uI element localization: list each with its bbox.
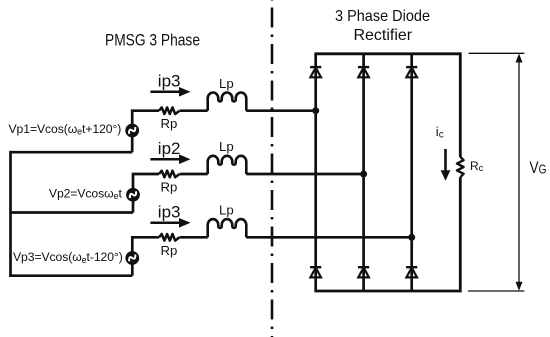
svg-text:Rp: Rp <box>161 243 178 258</box>
current arrow ip3 (phase 1) <box>150 91 181 94</box>
diode D4 (bottom leg 1) cathode bar <box>310 266 321 268</box>
VG measurement: top reference line <box>469 52 525 54</box>
wire phase3: inductor to rectifier leg 3 <box>246 236 412 239</box>
inductor Lp (phase 3) <box>208 219 247 237</box>
svg-text:Rectifier: Rectifier <box>353 27 412 44</box>
current arrow ip2 (phase 2) <box>150 158 181 161</box>
diode D5 (bottom leg 2) cathode bar <box>358 266 369 268</box>
load branch: bottom segment <box>459 177 462 292</box>
neutral wire: horizontal from Vp1 <box>11 151 133 154</box>
AC source Vp3 <box>125 251 139 265</box>
wire phase1: resistor to inductor <box>180 109 208 112</box>
node junction phase1/leg1 <box>312 107 319 114</box>
diode D3 (top leg 3) cathode bar <box>406 66 417 68</box>
inductor Lp (phase 2) <box>208 156 247 174</box>
AC source Vp1 <box>125 124 139 138</box>
wire phase3: resistor to inductor <box>180 236 208 239</box>
diode D2 (top leg 2) cathode bar <box>358 66 369 68</box>
svg-text:Rp: Rp <box>161 116 178 131</box>
wire phase2: resistor to inductor <box>180 173 208 176</box>
VG measurement: bottom reference line <box>468 290 524 292</box>
neutral wire: horizontal from Vp3 <box>11 274 133 277</box>
svg-text:PMSG 3 Phase: PMSG 3 Phase <box>105 32 200 50</box>
neutral wire: left vertical bus <box>9 151 12 277</box>
current arrow ic <box>444 149 447 171</box>
wire phase1: source top lead up and right to resistor <box>132 111 159 126</box>
svg-text:ip3: ip3 <box>158 72 181 91</box>
VG measurement: vertical arrow line <box>518 60 520 285</box>
node junction phase3/leg3 <box>408 234 415 241</box>
AC source Vp2 <box>126 188 140 202</box>
svg-text:Rp: Rp <box>161 180 178 195</box>
divider line (PMSG / rectifier boundary) <box>271 0 274 337</box>
svg-text:ic: ic <box>436 124 444 140</box>
load branch: top segment <box>459 52 462 157</box>
diode D2 triangle <box>358 68 369 78</box>
resistor Rp (phase 1) zigzag <box>159 107 180 114</box>
diode D1 triangle <box>310 68 321 78</box>
wire phase1: source bottom lead to neutral <box>131 137 134 153</box>
svg-text:VG: VG <box>530 159 547 178</box>
bottom DC bus <box>314 290 460 293</box>
svg-text:Lp: Lp <box>219 139 234 154</box>
wire phase3: source top lead up and right to resistor <box>132 237 159 252</box>
wire phase1: inductor to rectifier leg 1 <box>246 109 316 112</box>
diode D6 (bottom leg 3) cathode bar <box>406 266 417 268</box>
node junction phase2/leg2 <box>360 171 367 178</box>
wire phase2: source top lead up and right to resistor <box>133 174 159 189</box>
diode D3 triangle <box>406 68 417 78</box>
wire phase3: source bottom lead to neutral <box>131 264 134 276</box>
svg-text:ip3: ip3 <box>158 202 181 221</box>
rectifier leg 3 <box>410 54 413 291</box>
resistor Rc zigzag <box>457 157 464 177</box>
top DC bus <box>314 52 460 55</box>
wire phase2: inductor to rectifier leg 2 <box>246 173 363 176</box>
svg-text:Vp3=Vcos(ωet-120°): Vp3=Vcos(ωet-120°) <box>13 250 123 265</box>
rectifier leg 2 <box>362 54 365 291</box>
svg-text:Vp1=Vcos(ωet+120°): Vp1=Vcos(ωet+120°) <box>9 122 122 137</box>
svg-text:Vp2=Vcosωet: Vp2=Vcosωet <box>49 187 123 202</box>
diode D5 triangle <box>358 268 369 278</box>
wire phase2: source bottom lead to neutral <box>132 201 135 213</box>
VG measurement: top arrowhead <box>516 54 523 63</box>
VG measurement: bottom arrowhead <box>516 282 523 291</box>
inductor Lp (phase 1) <box>208 92 247 110</box>
diode D4 triangle <box>310 268 321 278</box>
svg-text:Lp: Lp <box>219 76 234 91</box>
svg-text:Rc: Rc <box>470 159 484 174</box>
neutral wire: horizontal from Vp2 <box>11 211 134 214</box>
diode D1 (top leg 1) cathode bar <box>310 66 321 68</box>
diode D6 triangle <box>406 268 417 278</box>
current arrow ip3 (phase 3) <box>150 222 181 225</box>
rectifier leg 1 <box>314 54 317 291</box>
svg-text:Lp: Lp <box>219 202 234 217</box>
resistor Rp (phase 3) zigzag <box>159 234 180 241</box>
resistor Rp (phase 2) zigzag <box>159 171 180 178</box>
svg-text:3 Phase Diode: 3 Phase Diode <box>335 8 430 25</box>
svg-text:ip2: ip2 <box>158 139 181 158</box>
